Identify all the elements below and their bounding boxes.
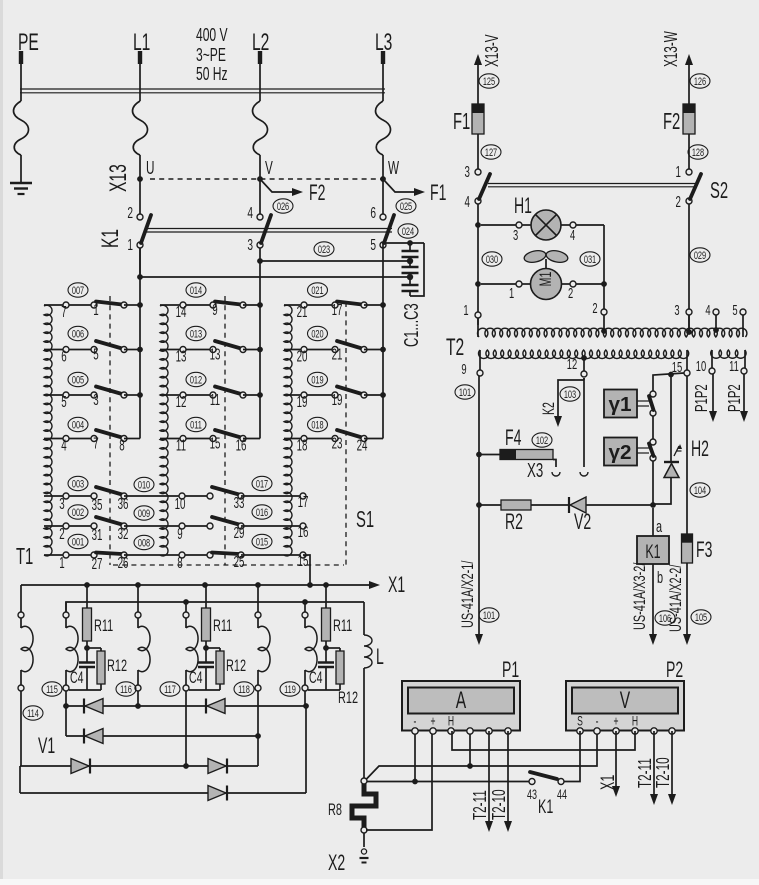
thyristor unit Y2 <box>604 438 637 466</box>
svg-text:F2: F2 <box>309 180 325 205</box>
transformer T1 winding phase 2 <box>160 305 168 556</box>
svg-text:8: 8 <box>119 436 124 454</box>
arrow P1P2 left <box>693 374 717 422</box>
T2 primary terminal 3 <box>674 302 692 335</box>
K1 mechanical linkage <box>146 229 392 233</box>
svg-text:R12: R12 <box>107 657 127 676</box>
svg-text:1: 1 <box>463 302 468 319</box>
wire number 006 <box>68 326 88 341</box>
relay coil K1 <box>637 508 669 564</box>
svg-text:19: 19 <box>332 391 343 409</box>
svg-text:X3: X3 <box>527 458 543 482</box>
wire number 029 <box>690 248 710 263</box>
rectifier leg wires down <box>21 691 305 766</box>
capacitor C1 <box>402 243 419 261</box>
svg-text:U: U <box>146 159 154 179</box>
svg-text:T1: T1 <box>16 544 33 570</box>
svg-text:50 Hz: 50 Hz <box>196 65 228 85</box>
svg-text:K2: K2 <box>539 402 558 415</box>
svg-text:128: 128 <box>692 146 704 159</box>
switch S2 contact 1-2 <box>676 134 701 211</box>
svg-text:γ2: γ2 <box>608 441 631 464</box>
svg-text:T2-10: T2-10 <box>654 757 674 788</box>
wire Y1 to Y2 contact <box>652 416 654 439</box>
wire number 013 <box>186 326 206 341</box>
S1 dashed boundary phase 3 <box>345 302 347 565</box>
svg-text:4: 4 <box>247 204 253 222</box>
svg-text:H: H <box>448 715 454 729</box>
T1 phase2 tap row 11-15 with S1 contact <box>160 430 260 454</box>
svg-text:H: H <box>632 715 638 729</box>
wire 44 to P2 S <box>564 731 580 782</box>
contact K1 auxiliary 43-44 <box>527 772 567 818</box>
svg-text:31: 31 <box>92 526 103 544</box>
T1 phase3 tap row 21-17 with S1 contact <box>284 301 386 321</box>
wire number 105 <box>691 610 711 625</box>
wire number 018 <box>308 417 328 432</box>
svg-text:R8: R8 <box>328 801 342 820</box>
wire number 119 <box>280 682 300 697</box>
arrow X1 from P2 plus <box>597 731 620 797</box>
svg-text:015: 015 <box>256 536 268 549</box>
svg-text:1: 1 <box>59 554 64 572</box>
svg-text:P1P2: P1P2 <box>726 384 745 412</box>
capacitor C2 <box>402 258 419 277</box>
svg-text:001: 001 <box>72 536 84 549</box>
arrow X13-V <box>474 34 503 104</box>
svg-text:18: 18 <box>297 436 308 454</box>
svg-text:R12: R12 <box>226 657 246 676</box>
wire number 009 <box>134 506 154 521</box>
svg-text:L2: L2 <box>252 29 269 56</box>
svg-text:020: 020 <box>311 328 323 341</box>
svg-text:9: 9 <box>177 525 182 543</box>
lamp H1 <box>481 193 604 244</box>
svg-text:004: 004 <box>72 419 84 432</box>
svg-text:V: V <box>265 159 273 179</box>
wire number 019 <box>308 372 328 387</box>
svg-text:14: 14 <box>176 303 187 321</box>
wire number 025 <box>396 199 416 214</box>
svg-text:11: 11 <box>176 436 186 454</box>
svg-text:114: 114 <box>27 707 39 720</box>
wire number 003 <box>68 476 88 491</box>
svg-text:005: 005 <box>72 374 84 387</box>
svg-text:C4: C4 <box>189 668 203 687</box>
diode V1-2 <box>206 699 225 714</box>
svg-text:23: 23 <box>332 434 343 452</box>
T1 phase2 tap row 13-13 with S1 contact <box>160 341 263 365</box>
svg-text:1: 1 <box>127 236 133 254</box>
svg-text:007: 007 <box>72 284 84 297</box>
svg-text:5: 5 <box>370 236 376 254</box>
svg-text:R12: R12 <box>338 689 358 708</box>
wire number 125 <box>479 74 499 89</box>
svg-text:2: 2 <box>568 285 573 302</box>
svg-text:24: 24 <box>357 436 368 454</box>
wire number 118 <box>234 682 254 697</box>
svg-text:29: 29 <box>234 524 245 542</box>
svg-text:K1: K1 <box>645 541 660 562</box>
diode row 1 wire <box>63 703 309 709</box>
T1 lower tap row 1 with S1 contacts <box>44 552 308 573</box>
diode row 2 wire <box>66 706 261 739</box>
resistor R11 at x=326 <box>322 585 353 651</box>
wire Y2 contact to node a <box>652 461 654 505</box>
wire tap 12 to X3 <box>580 378 588 476</box>
wire number 031 <box>580 252 600 267</box>
svg-text:F4: F4 <box>505 425 521 450</box>
svg-text:016: 016 <box>256 506 268 519</box>
T2 tap 12 <box>567 355 587 377</box>
T1 phase3 tap row 18-23 with S1 contact <box>284 430 383 454</box>
wire number 007 <box>68 283 88 298</box>
wire number 011 <box>186 417 206 432</box>
svg-text:025: 025 <box>400 200 412 213</box>
svg-text:017: 017 <box>256 478 268 491</box>
svg-text:012: 012 <box>190 374 202 387</box>
wire contact3 to capacitor junction <box>257 248 410 264</box>
wire number 115 <box>42 682 62 697</box>
wire number 106 <box>655 611 675 626</box>
wire S2-2 down <box>688 204 690 330</box>
resistor R12 at x=340 <box>326 648 358 708</box>
svg-text:P1: P1 <box>502 657 519 682</box>
node V <box>257 159 273 182</box>
svg-text:3: 3 <box>513 227 518 244</box>
T2 primary winding <box>477 328 746 337</box>
svg-text:6: 6 <box>370 204 376 222</box>
svg-text:X1: X1 <box>597 775 618 790</box>
power line L2 <box>253 51 268 179</box>
svg-text:43: 43 <box>527 787 537 802</box>
wire number 016 <box>252 505 272 520</box>
svg-text:16: 16 <box>236 436 247 454</box>
S1 dashed boundary bottom <box>113 564 344 566</box>
svg-text:4: 4 <box>705 302 710 319</box>
svg-text:8: 8 <box>177 554 182 572</box>
svg-text:C4: C4 <box>70 668 84 687</box>
svg-text:F2: F2 <box>663 109 680 135</box>
svg-text:R11: R11 <box>94 617 113 636</box>
fuse F3 <box>682 534 713 563</box>
wire number 001 <box>68 534 88 549</box>
wire number 024 <box>398 224 418 239</box>
svg-text:F3: F3 <box>696 537 712 562</box>
svg-text:115: 115 <box>46 683 58 696</box>
wire contact5 to capacitor bank <box>383 240 424 246</box>
capacitor bank return wire <box>410 243 424 296</box>
capacitor C4 at x=326 <box>309 648 334 690</box>
arrow T2-10 from P2 <box>654 731 676 805</box>
node U <box>137 159 154 182</box>
svg-text:F1: F1 <box>453 109 470 135</box>
svg-text:2: 2 <box>592 300 597 317</box>
fuse F1 <box>453 104 484 135</box>
svg-text:5: 5 <box>93 345 98 363</box>
svg-text:105: 105 <box>695 611 707 624</box>
svg-text:3: 3 <box>465 163 470 181</box>
svg-text:21: 21 <box>332 345 343 363</box>
rectifier transformer leg coil at x=21 <box>18 585 33 691</box>
svg-text:3: 3 <box>59 495 64 513</box>
T1 phase2 tap row 14-9 with S1 contact <box>160 301 263 321</box>
T2 primary terminal 5 <box>732 302 746 337</box>
supply bus double line <box>20 89 385 93</box>
wire number 005 <box>68 372 88 387</box>
svg-text:019: 019 <box>311 374 323 387</box>
inductor L <box>364 602 384 778</box>
wire 15 down to F3 <box>686 376 688 534</box>
svg-text:031: 031 <box>584 253 596 266</box>
svg-text:125: 125 <box>483 75 495 88</box>
wire number 101 <box>455 385 475 400</box>
svg-text:K1: K1 <box>97 229 124 248</box>
phase V bus wire <box>259 261 261 439</box>
svg-text:17: 17 <box>298 493 309 511</box>
svg-text:36: 36 <box>118 495 129 513</box>
svg-text:029: 029 <box>694 249 706 262</box>
wire R8 top to P2 S via K1 aux <box>366 731 597 780</box>
contactor K1 contact 4-3 <box>247 204 271 254</box>
rectifier transformer leg coil at x=66 <box>63 602 78 691</box>
svg-text:T2-11: T2-11 <box>471 790 491 820</box>
svg-text:101: 101 <box>483 609 495 622</box>
svg-text:1: 1 <box>676 163 681 181</box>
svg-text:33: 33 <box>234 494 245 512</box>
svg-text:S: S <box>577 715 583 729</box>
svg-text:γ1: γ1 <box>608 393 631 416</box>
T2 secondary winding P1P2 section <box>696 350 747 375</box>
LED H2 <box>655 377 709 504</box>
svg-text:27: 27 <box>92 555 103 573</box>
T1 phase1 tap row 7-1 with S1 contact <box>44 301 143 321</box>
svg-text:116: 116 <box>120 683 132 696</box>
svg-text:026: 026 <box>277 200 289 213</box>
svg-text:002: 002 <box>72 506 84 519</box>
svg-text:3: 3 <box>674 302 679 319</box>
wire number 008 <box>134 535 154 550</box>
svg-text:V1: V1 <box>38 733 55 758</box>
arrow F2 <box>292 180 325 205</box>
label 400 V 3~PE 50 Hz <box>196 26 228 85</box>
diode V1-1 <box>84 699 103 714</box>
wire P1 t4 to junction <box>469 731 471 766</box>
wire number 026 <box>273 199 293 214</box>
wire number 004 <box>68 417 88 432</box>
resistor R12 at x=220 <box>206 648 246 690</box>
S1 dashed boundary phase 1 <box>109 296 111 565</box>
arrow X13-W <box>662 31 693 104</box>
wire number 104 <box>690 483 710 498</box>
svg-text:030: 030 <box>486 253 498 266</box>
wire V to F2 arrow <box>260 179 295 192</box>
svg-text:011: 011 <box>190 419 202 432</box>
wire number 117 <box>160 682 180 697</box>
svg-text:024: 024 <box>402 225 414 238</box>
svg-text:018: 018 <box>311 419 323 432</box>
svg-text:13: 13 <box>176 347 187 365</box>
svg-text:W: W <box>388 159 399 179</box>
voltmeter P2 <box>666 657 683 682</box>
svg-text:008: 008 <box>138 537 150 550</box>
svg-text:2: 2 <box>676 193 681 211</box>
svg-text:1: 1 <box>93 301 98 319</box>
resistor R11 at x=87 <box>83 585 114 651</box>
svg-text:S1: S1 <box>356 507 374 533</box>
svg-text:20: 20 <box>297 347 308 365</box>
contactor K1 contact 2-1 <box>127 204 151 254</box>
svg-text:3: 3 <box>93 391 98 409</box>
svg-text:25: 25 <box>234 553 245 571</box>
svg-text:2: 2 <box>59 525 64 543</box>
rectifier second rail <box>66 599 364 615</box>
arrow P1P2 right <box>726 374 748 422</box>
snubber bottom wire <box>69 689 101 691</box>
wire K1 to arrow 106 <box>631 563 663 645</box>
svg-text:102: 102 <box>536 434 548 447</box>
svg-text:11: 11 <box>210 391 220 409</box>
svg-text:19: 19 <box>297 393 308 411</box>
capacitor C4 at x=206 <box>189 648 214 690</box>
power line L3 <box>376 51 391 179</box>
svg-text:5: 5 <box>61 393 66 411</box>
wire W down to K1 <box>382 179 384 214</box>
svg-text:R11: R11 <box>213 617 232 636</box>
svg-text:-: - <box>596 715 599 729</box>
svg-text:117: 117 <box>164 683 176 696</box>
T1 phase2 tap row 12-11 with S1 contact <box>160 387 263 411</box>
node W <box>380 159 399 182</box>
contactor K1 contact 6-5 <box>370 204 394 254</box>
wire number 002 <box>68 505 88 520</box>
wire U down to K1 <box>139 179 141 214</box>
Y2 contact <box>637 439 656 461</box>
svg-text:M1: M1 <box>536 272 555 287</box>
svg-text:C4: C4 <box>309 668 323 687</box>
T1 phase3 tap row 20-21 with S1 contact <box>284 341 386 365</box>
svg-text:L: L <box>376 644 384 669</box>
svg-text:014: 014 <box>190 284 202 297</box>
T1 phase1 tap row 5-3 with S1 contact <box>44 387 143 411</box>
svg-text:003: 003 <box>72 478 84 491</box>
diode V2 <box>569 497 591 534</box>
svg-text:126: 126 <box>694 75 706 88</box>
wire S2-4 down <box>475 204 481 325</box>
T1 lower tap row 3 with S1 contacts <box>44 487 308 514</box>
wire number 014 <box>186 283 206 298</box>
fuse F2 <box>663 104 695 135</box>
svg-text:V: V <box>620 687 631 714</box>
wire number 023 <box>314 242 334 257</box>
svg-text:10: 10 <box>696 358 707 375</box>
svg-text:16: 16 <box>298 523 309 541</box>
capacitor C3 <box>402 274 419 296</box>
phase U bus wire <box>139 248 141 439</box>
svg-text:12: 12 <box>567 356 578 373</box>
wire H1-4 M1-2 to T2 <box>601 225 607 309</box>
svg-text:1: 1 <box>509 285 514 302</box>
fuse F4 <box>479 425 553 460</box>
wire F3 to arrow 105 <box>667 563 691 645</box>
wire number 102 <box>532 433 552 448</box>
svg-text:127: 127 <box>485 146 497 159</box>
T1 phase1 tap row 4-7 with S1 contact <box>44 430 140 454</box>
wire V down to K1 <box>259 179 261 214</box>
svg-text:P1P2: P1P2 <box>693 384 712 412</box>
svg-text:-: - <box>414 715 417 729</box>
wire number 021 <box>308 283 328 298</box>
wire number 114 <box>23 706 43 721</box>
svg-text:S2: S2 <box>710 178 728 204</box>
wire T1 bottom row to X1 bus <box>303 555 310 585</box>
svg-text:023: 023 <box>318 243 330 256</box>
S1 dashed boundary phase 2 <box>224 296 226 565</box>
arrow F1 <box>414 180 446 205</box>
arrow T2-10 from P1 <box>490 731 512 832</box>
svg-text:X1: X1 <box>388 572 405 597</box>
wire tap 12 to K2 arrow <box>539 378 584 427</box>
svg-text:119: 119 <box>284 683 296 696</box>
capacitor C4 at x=87 <box>70 648 95 690</box>
phase W bus wire <box>382 243 384 439</box>
svg-text:a: a <box>656 518 662 537</box>
svg-text:9: 9 <box>212 301 217 319</box>
terminal X2 <box>328 833 368 875</box>
wire W to F1 arrow <box>383 179 417 192</box>
snubber bottom wire <box>189 689 220 691</box>
T2 primary terminal 1 <box>463 302 481 337</box>
S2 mechanical linkage <box>488 184 697 187</box>
fan motor M1 <box>481 249 604 302</box>
wire number 127 <box>481 145 501 160</box>
svg-text:021: 021 <box>311 284 323 297</box>
wire number 017 <box>252 476 272 491</box>
svg-text:400 V: 400 V <box>196 26 228 46</box>
svg-text:P2: P2 <box>666 657 683 682</box>
svg-text:X2: X2 <box>328 850 345 875</box>
rectifier transformer leg coil at x=186 <box>183 602 198 691</box>
junction dots on X1 bus <box>84 582 329 588</box>
transformer T1 winding phase 3 <box>284 305 292 556</box>
svg-text:V2: V2 <box>574 509 591 534</box>
wire number 030 <box>482 252 502 267</box>
diode row 3 wire <box>20 736 258 769</box>
rectifier transformer leg coil at x=138 <box>135 585 150 691</box>
switch S2 contact 3-4 <box>465 134 490 211</box>
connector X13 dashed line <box>150 178 383 180</box>
svg-text:32: 32 <box>118 525 129 543</box>
resistor R11 at x=206 <box>202 585 233 651</box>
svg-text:3: 3 <box>247 236 253 254</box>
power line PE <box>14 51 29 183</box>
T2 primary terminal 4 <box>705 302 719 333</box>
svg-text:4: 4 <box>570 227 575 244</box>
svg-text:10: 10 <box>175 495 186 513</box>
power line L1 <box>133 51 148 179</box>
svg-text:+: + <box>430 715 435 729</box>
svg-text:26: 26 <box>118 554 129 572</box>
svg-text:118: 118 <box>238 683 250 696</box>
wire number 020 <box>308 326 328 341</box>
wire number 103 <box>560 387 580 402</box>
svg-text:X13-V: X13-V <box>483 34 503 67</box>
svg-text:7: 7 <box>61 303 66 321</box>
T2 secondary winding <box>461 350 690 378</box>
svg-text:F1: F1 <box>430 180 446 205</box>
svg-text:13: 13 <box>210 345 221 363</box>
wire number 128 <box>688 145 708 160</box>
